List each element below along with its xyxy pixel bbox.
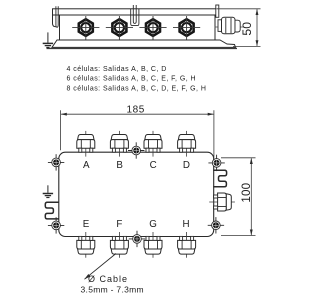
screw top-middle [128, 142, 144, 158]
side gland nut [222, 17, 236, 34]
dim 185 extension lines [60, 110, 62, 150]
left latch [56, 6, 58, 27]
svg-text:G: G [149, 219, 157, 230]
svg-text:H: H [182, 219, 189, 230]
side gland cap [235, 20, 240, 32]
gland D [178, 131, 196, 157]
svg-text:50: 50 [240, 22, 254, 36]
dim 100 extension lines [221, 157, 256, 159]
gland F [110, 232, 128, 258]
svg-text:185: 185 [126, 105, 145, 116]
side gland collar [218, 20, 222, 32]
svg-text:3.5mm - 7.3mm: 3.5mm - 7.3mm [81, 284, 144, 294]
ground symbol side view [43, 32, 53, 47]
screw bottom-left [48, 217, 64, 233]
gland right side [209, 193, 235, 211]
screw bottom-middle [129, 231, 145, 247]
screw top-right [208, 155, 224, 171]
dim 185 line [61, 113, 213, 115]
gland B [110, 131, 128, 157]
middle latch inner [133, 5, 136, 23]
side gland centerline [215, 26, 245, 28]
right meander clip [213, 170, 226, 186]
ground symbol top view [43, 185, 53, 197]
svg-text:A: A [83, 160, 90, 171]
gland A [77, 131, 95, 157]
dim 100 line [250, 158, 252, 235]
base flange [52, 40, 236, 47]
svg-text:D: D [183, 160, 190, 171]
gland G [144, 232, 162, 258]
screw top-left [48, 154, 64, 170]
dim 50 extension lines [217, 8, 261, 10]
hex gland nut 3 [139, 16, 166, 40]
svg-text:F: F [116, 219, 122, 230]
left lid edge curve [53, 9, 57, 27]
svg-text:E: E [83, 219, 90, 230]
svg-text:4 células: Salidas A, B, C, D: 4 células: Salidas A, B, C, D [67, 66, 167, 73]
right tab [216, 5, 219, 17]
screw bottom-right [208, 217, 224, 233]
hex gland nut 4 [173, 16, 200, 40]
svg-text:100: 100 [240, 183, 253, 203]
hex gland nut 2 [106, 16, 133, 40]
gland H [178, 232, 196, 258]
dim 50 line [256, 9, 258, 46]
svg-text:Ø Cable: Ø Cable [88, 274, 128, 284]
gland E [77, 232, 95, 258]
svg-text:B: B [116, 160, 123, 171]
body [60, 15, 216, 40]
lid [53, 9, 217, 15]
svg-text:6 células: Salidas A, B, C, E,: 6 células: Salidas A, B, C, E, F, G, H [67, 76, 197, 83]
box outline [59, 152, 214, 236]
hex gland nut 1 [72, 16, 99, 40]
svg-text:8 células: Salidas A, B, C, D,: 8 células: Salidas A, B, C, D, E, F, G, … [67, 85, 207, 92]
middle latch outer [131, 9, 139, 26]
base shadow line [47, 47, 238, 49]
gland C [144, 131, 162, 157]
svg-text:C: C [150, 160, 157, 171]
cable leader line [85, 254, 117, 280]
left meander clip [45, 202, 59, 219]
